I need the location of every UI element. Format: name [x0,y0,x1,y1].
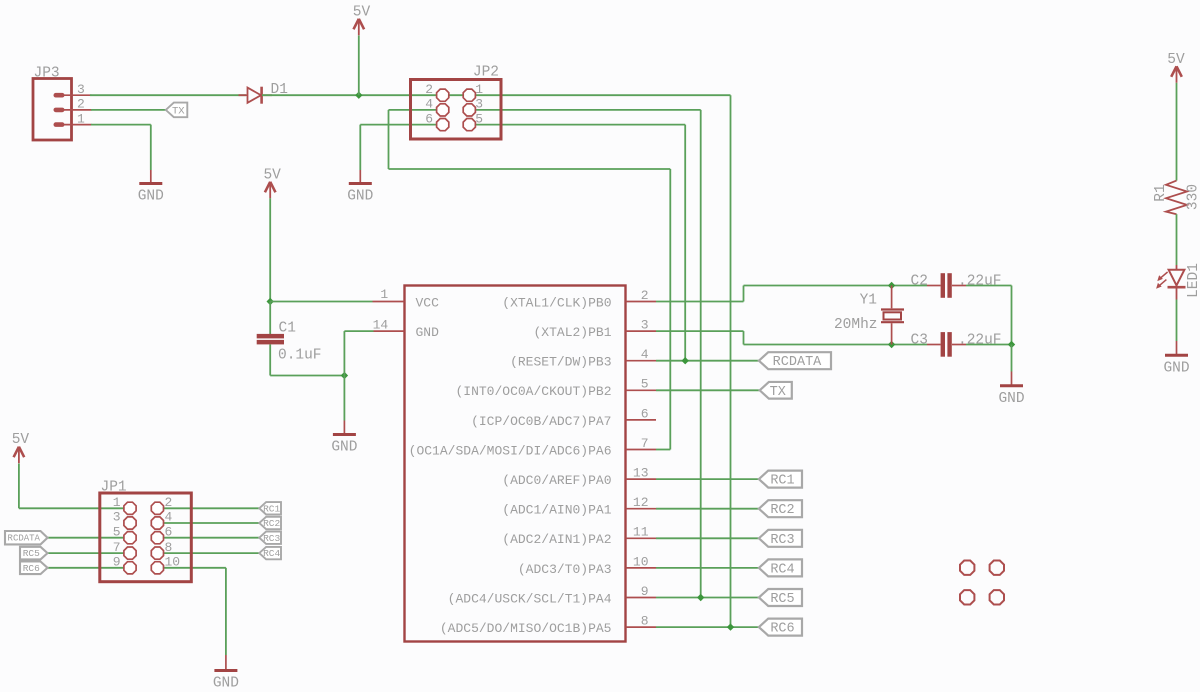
svg-text:9: 9 [641,584,649,599]
svg-text:12: 12 [633,495,649,510]
svg-text:5: 5 [113,524,121,539]
svg-text:GND: GND [416,325,440,340]
svg-text:GND: GND [998,391,1024,407]
svg-text:(RESET/DW)PB3: (RESET/DW)PB3 [510,355,611,370]
svg-text:10: 10 [165,555,181,570]
svg-text:7: 7 [113,540,121,555]
svg-text:C3: C3 [911,333,928,349]
svg-text:RC4: RC4 [263,548,280,559]
svg-text:(ADC2/AIN1)PA2: (ADC2/AIN1)PA2 [502,532,611,547]
svg-text:GND: GND [213,676,239,692]
svg-text:6: 6 [165,524,173,539]
svg-text:LED1: LED1 [1186,263,1200,298]
svg-text:(INT0/OC0A/CKOUT)PB2: (INT0/OC0A/CKOUT)PB2 [455,384,611,399]
svg-text:5V: 5V [12,432,30,448]
svg-text:R1: R1 [1153,184,1169,201]
svg-text:4: 4 [425,97,433,112]
svg-text:RC5: RC5 [23,548,40,559]
svg-text:11: 11 [633,525,649,540]
svg-text:RC3: RC3 [770,533,794,548]
svg-text:GND: GND [331,440,357,456]
svg-text:.22uF: .22uF [958,274,1002,290]
svg-text:RC5: RC5 [770,592,794,607]
svg-text:8: 8 [165,540,173,555]
svg-text:5V: 5V [263,167,281,183]
svg-text:10: 10 [633,554,649,569]
svg-text:GND: GND [347,189,373,205]
svg-text:(ICP/OC0B/ADC7)PA7: (ICP/OC0B/ADC7)PA7 [471,414,611,429]
svg-text:330: 330 [1186,184,1200,210]
svg-text:6: 6 [425,111,433,126]
svg-text:13: 13 [633,466,649,481]
svg-text:(OC1A/SDA/MOSI/DI/ADC6)PA6: (OC1A/SDA/MOSI/DI/ADC6)PA6 [409,443,612,458]
svg-text:RC2: RC2 [770,503,794,518]
svg-text:C2: C2 [911,274,928,290]
svg-text:0.1uF: 0.1uF [278,348,322,364]
svg-text:6: 6 [641,406,649,421]
svg-text:RC3: RC3 [263,533,280,544]
svg-text:5: 5 [475,111,483,126]
svg-text:(ADC1/AIN0)PA1: (ADC1/AIN0)PA1 [502,503,611,518]
svg-text:1: 1 [475,82,483,97]
svg-text:(ADC5/DO/MISO/OC1B)PA5: (ADC5/DO/MISO/OC1B)PA5 [440,621,612,636]
svg-text:5V: 5V [353,4,371,20]
svg-text:RCDATA: RCDATA [773,355,823,370]
svg-text:GND: GND [138,189,164,205]
svg-text:GND: GND [1163,360,1189,376]
svg-text:3: 3 [641,318,649,333]
svg-text:5V: 5V [1167,52,1185,68]
svg-text:Y1: Y1 [860,292,877,308]
svg-text:7: 7 [641,436,649,451]
svg-text:TX: TX [770,385,786,400]
svg-text:RC6: RC6 [770,622,794,637]
svg-text:.22uF: .22uF [958,333,1002,349]
svg-text:9: 9 [113,555,121,570]
svg-text:(XTAL2)PB1: (XTAL2)PB1 [533,325,611,340]
svg-text:14: 14 [373,318,389,333]
svg-text:4: 4 [641,347,649,362]
svg-text:(XTAL1/CLK)PB0: (XTAL1/CLK)PB0 [502,295,611,310]
svg-text:VCC: VCC [416,295,440,310]
svg-text:(ADC0/AREF)PA0: (ADC0/AREF)PA0 [502,473,611,488]
svg-text:(ADC3/T0)PA3: (ADC3/T0)PA3 [518,562,612,577]
svg-text:1: 1 [380,287,388,302]
svg-text:5: 5 [641,377,649,392]
svg-text:RCDATA: RCDATA [8,534,41,544]
svg-text:2: 2 [425,82,433,97]
svg-text:4: 4 [165,510,173,525]
svg-text:20Mhz: 20Mhz [834,317,878,333]
svg-text:RC4: RC4 [770,562,794,577]
svg-text:2: 2 [165,495,173,510]
svg-text:RC1: RC1 [770,474,794,489]
svg-text:1: 1 [77,111,85,126]
svg-text:RC1: RC1 [263,503,280,514]
svg-text:3: 3 [113,510,121,525]
svg-text:TX: TX [172,105,185,117]
svg-text:(ADC4/USCK/SCL/T1)PA4: (ADC4/USCK/SCL/T1)PA4 [448,591,612,606]
svg-text:8: 8 [641,614,649,629]
svg-text:RC6: RC6 [23,563,40,574]
svg-text:2: 2 [77,97,85,112]
svg-text:C1: C1 [279,321,296,337]
svg-text:RC2: RC2 [263,518,280,529]
svg-text:1: 1 [113,495,121,510]
svg-text:2: 2 [641,288,649,303]
svg-text:3: 3 [475,97,483,112]
svg-text:3: 3 [77,82,85,97]
